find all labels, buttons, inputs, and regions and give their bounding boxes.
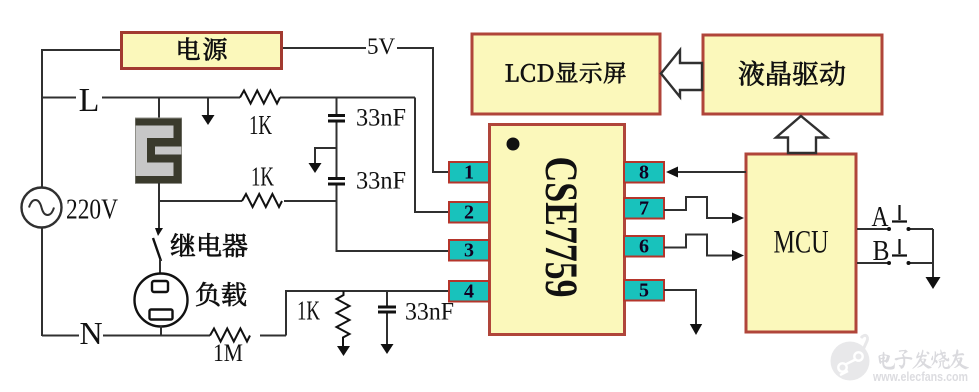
pin 7 of U1 bbox=[624, 198, 664, 220]
label: 5V bbox=[367, 34, 396, 59]
label: L bbox=[76, 82, 102, 119]
svg-text:33nF: 33nF bbox=[405, 299, 454, 326]
push-button A (right of MCU) bbox=[857, 205, 933, 231]
svg-text:MCU: MCU bbox=[774, 225, 829, 261]
block: LCD display box bbox=[472, 34, 660, 114]
svg-text:220V: 220V bbox=[66, 194, 118, 226]
svg-text:8: 8 bbox=[639, 162, 649, 184]
wire: 5V lead from label to corner, down into pin 1 bbox=[397, 48, 449, 172]
IC U1 CSE7759 body bbox=[490, 125, 625, 335]
shunt resistor (manganin current shunt) bbox=[136, 118, 182, 184]
pin 1 of U1 bbox=[449, 162, 489, 184]
label: 33nF C2 bbox=[356, 168, 406, 195]
wire: 5V lead from power box to label bbox=[282, 47, 366, 49]
relay switch K1 contact bbox=[153, 228, 163, 274]
wire: load bottom stem to N line bbox=[160, 326, 162, 336]
wire: pin 5 to ground bbox=[664, 290, 702, 335]
svg-text:L: L bbox=[79, 82, 100, 119]
capacitor C2 33nF bbox=[328, 179, 345, 185]
label: CSE7759 (rotated) bbox=[535, 157, 587, 298]
svg-text:1K: 1K bbox=[251, 162, 274, 192]
wire: capacitor stack vertical (x=336.5) with branch to pin 3 bbox=[337, 98, 450, 252]
svg-text:1K: 1K bbox=[297, 296, 320, 326]
hollow arrow: LCD driver to LCD display bbox=[661, 50, 702, 97]
svg-text:N: N bbox=[79, 315, 102, 351]
svg-text:33nF: 33nF bbox=[356, 105, 406, 132]
wire: riser from N line up into pin 4 bbox=[286, 291, 452, 336]
block: LCD driver box (液晶驱动) bbox=[703, 35, 882, 114]
svg-text:4: 4 bbox=[464, 281, 474, 303]
resistor R4 1K (vertical, to ground) bbox=[337, 291, 351, 356]
wire: pin 6 to MCU (pulse step, arrow into MCU) bbox=[664, 235, 744, 262]
label: MCU bbox=[774, 225, 829, 261]
label: 1K R2 bbox=[251, 162, 274, 192]
svg-text:B: B bbox=[873, 236, 890, 267]
label: N bbox=[79, 315, 103, 351]
wire: left vertical bus below AC source to N line bbox=[41, 229, 43, 337]
pin-1 index dot on U1 bbox=[507, 138, 520, 151]
label: B bbox=[873, 236, 890, 267]
label: 继电器 (relay) bbox=[171, 233, 247, 257]
wire: power box left lead bbox=[41, 49, 121, 51]
watermark: elecfans logo bbox=[831, 335, 870, 380]
label: 电源 (power) bbox=[179, 38, 227, 61]
AC source V1 220V bbox=[22, 188, 62, 228]
wire: L line bbox=[42, 97, 415, 99]
watermark: www.elecfans.com bbox=[872, 369, 968, 384]
pin 3 of U1 bbox=[449, 240, 489, 262]
capacitor C1 33nF bbox=[328, 116, 345, 122]
label: 1M R3 bbox=[213, 340, 243, 367]
block: MCU box bbox=[746, 154, 856, 332]
block: power supply box (电源) bbox=[122, 33, 282, 69]
label: 液晶驱动 bbox=[739, 61, 845, 86]
wire: left vertical bus (phase L feed down to AC source) bbox=[41, 49, 43, 192]
pin 6 of U1 bbox=[624, 236, 664, 258]
wire: row-2 line from shunt junction to cap node bbox=[159, 200, 337, 202]
watermark: 电子发烧友 text bbox=[878, 349, 969, 369]
svg-text:5: 5 bbox=[639, 280, 649, 302]
svg-text:33nF: 33nF bbox=[356, 168, 406, 195]
resistor R1 1K (on L line) bbox=[240, 91, 280, 104]
wire: MCU to pin 8 (arrow into pin 8) bbox=[666, 167, 746, 178]
pin 8 of U1 bbox=[624, 162, 664, 184]
load LD1 (plug/outlet symbol) bbox=[135, 274, 188, 327]
sense arrow (down) on L line bbox=[202, 98, 215, 125]
pin 4 of U1 bbox=[449, 281, 489, 303]
svg-text:CSE7759: CSE7759 bbox=[535, 157, 587, 298]
pin 2 of U1 bbox=[449, 202, 489, 224]
ground arrow between C1 and C2 bbox=[309, 148, 337, 173]
label: 33nF C1 bbox=[356, 105, 406, 132]
label: LCD显示屏 bbox=[506, 62, 626, 83]
wire: pin 7 to MCU (pulse step, arrow into MCU) bbox=[664, 197, 744, 224]
hollow arrow: MCU up to LCD driver bbox=[776, 116, 827, 153]
resistor R2 1K (row 2) bbox=[242, 194, 282, 207]
svg-text:1: 1 bbox=[464, 162, 474, 184]
svg-text:A: A bbox=[872, 202, 890, 233]
resistor R3 1M (on N line) bbox=[210, 329, 250, 342]
svg-text:5V: 5V bbox=[367, 34, 396, 59]
svg-text:1M: 1M bbox=[213, 340, 243, 367]
label: 负载 (load) bbox=[196, 282, 246, 306]
wire: L corner down into pin 2 bbox=[415, 98, 449, 213]
wire: shunt bottom lead down to relay bbox=[158, 183, 160, 228]
label: 1K R1 bbox=[249, 110, 272, 140]
label: 33nF C3 bbox=[405, 299, 454, 326]
svg-text:6: 6 bbox=[639, 236, 649, 258]
svg-text:3: 3 bbox=[464, 240, 474, 262]
svg-text:www.elecfans.com: www.elecfans.com bbox=[872, 369, 968, 384]
label: 220V bbox=[66, 194, 118, 226]
push-button B (right of MCU) bbox=[857, 239, 933, 265]
capacitor C3 33nF (vertical, to ground) bbox=[378, 291, 396, 354]
wire: N line bbox=[42, 335, 286, 337]
label: A bbox=[872, 202, 890, 233]
wire: buttons common to ground bbox=[926, 229, 941, 289]
label: 1K R4 bbox=[297, 296, 320, 326]
pin 5 of U1 bbox=[624, 280, 664, 302]
svg-text:7: 7 bbox=[639, 198, 649, 220]
svg-text:2: 2 bbox=[464, 202, 474, 224]
wire: shunt top lead bbox=[158, 98, 160, 120]
svg-text:1K: 1K bbox=[249, 110, 272, 140]
